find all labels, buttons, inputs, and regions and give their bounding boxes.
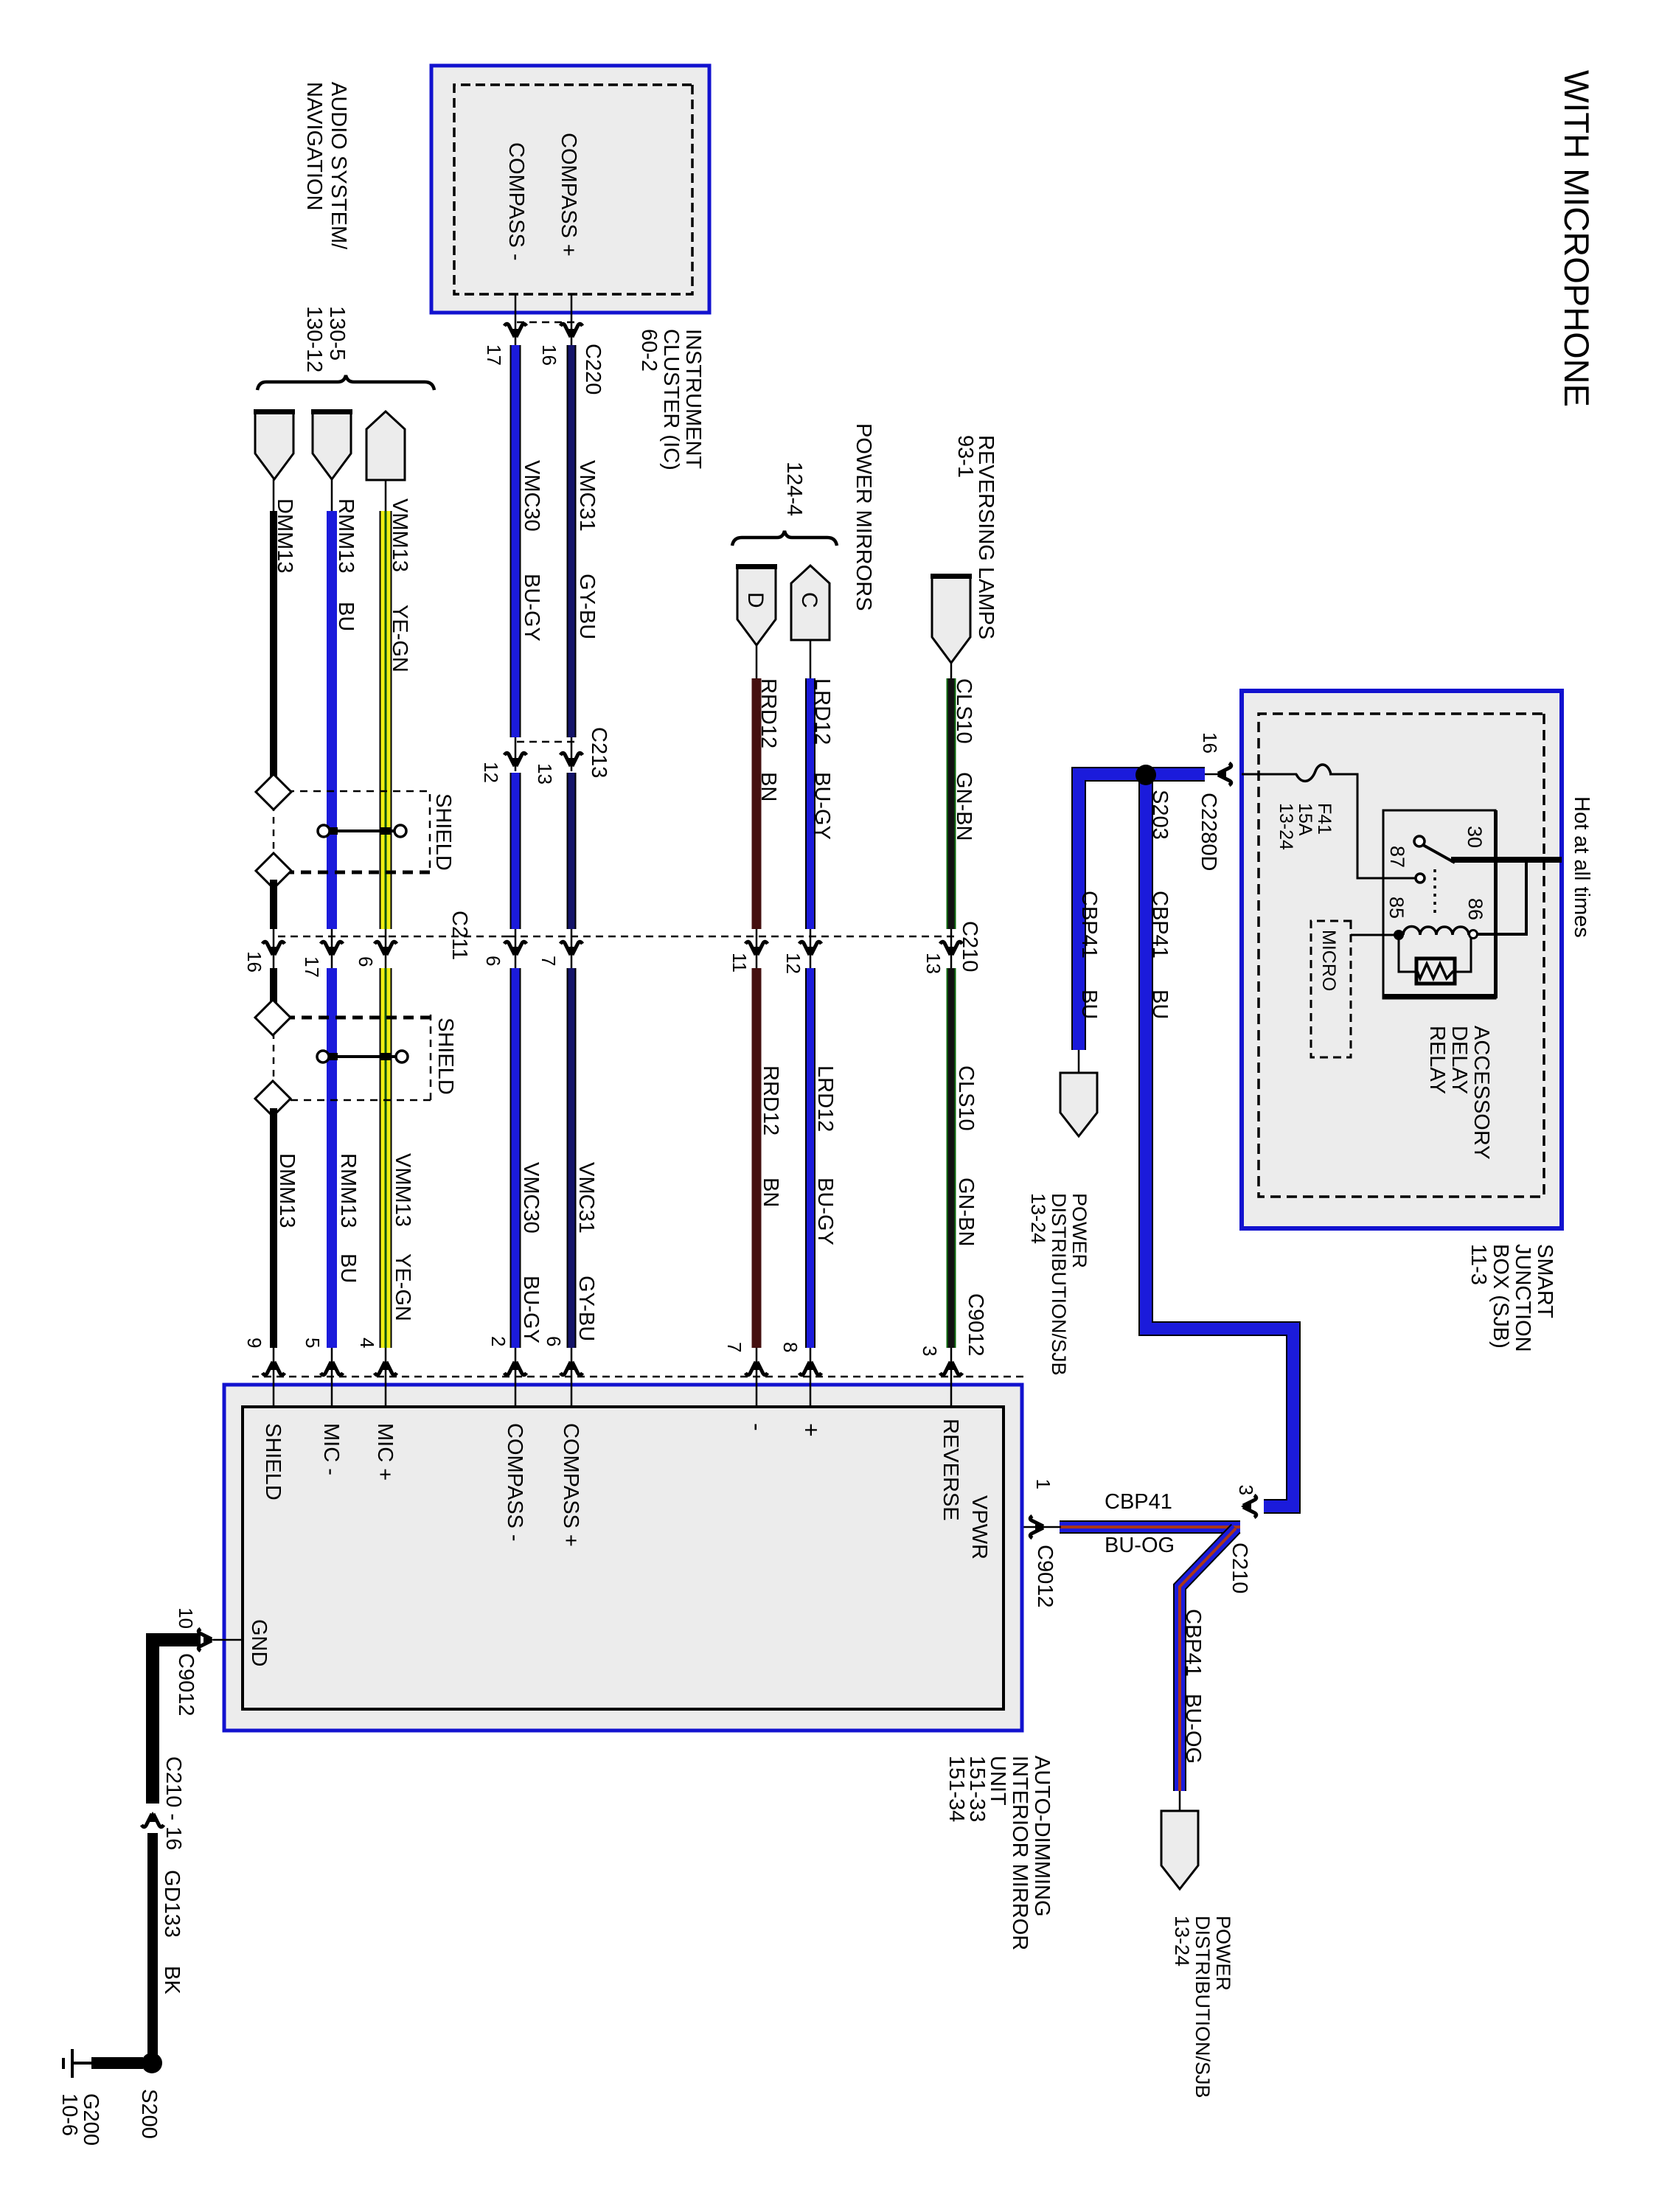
- mirror pin 4 lead: [385, 1348, 387, 1407]
- svg-text:1: 1: [1032, 1479, 1054, 1489]
- svg-text:VMC30: VMC30: [519, 1162, 543, 1234]
- svg-text:REVERSING LAMPS: REVERSING LAMPS: [974, 435, 998, 639]
- svg-text:BOX (SJB): BOX (SJB): [1489, 1244, 1512, 1349]
- svg-text:87: 87: [1386, 846, 1408, 868]
- svg-text:F41: F41: [1314, 803, 1335, 835]
- pin arrow C9012-6: [560, 1360, 582, 1375]
- wire CBP41 BU branch (S203 to C210-3): [1146, 775, 1293, 1506]
- svg-text:151-34: 151-34: [945, 1756, 968, 1822]
- svg-text:BK: BK: [160, 1966, 184, 1994]
- svg-text:BU: BU: [336, 1253, 360, 1283]
- svg-text:ACCESSORY: ACCESSORY: [1470, 1026, 1493, 1160]
- svg-text:GN-BN: GN-BN: [954, 1178, 978, 1246]
- svg-text:BN: BN: [757, 772, 780, 801]
- svg-text:DISTRIBUTION/SJB: DISTRIBUTION/SJB: [1192, 1916, 1214, 2098]
- connector flag REVERSING LAMPS: [932, 575, 970, 663]
- svg-text:D: D: [743, 592, 768, 608]
- pin arrow C210-13: [940, 942, 962, 957]
- pin arrow C211-17: [321, 942, 343, 957]
- svg-text:86: 86: [1464, 898, 1486, 920]
- mirror pin 8 lead: [810, 1348, 812, 1407]
- shield drain diamond 3: [255, 1000, 291, 1035]
- svg-text:C213: C213: [587, 727, 611, 778]
- svg-text:COMPASS +: COMPASS +: [559, 1423, 582, 1547]
- svg-text:VPWR: VPWR: [967, 1495, 991, 1559]
- svg-text:4: 4: [356, 1338, 378, 1348]
- mirror unit inner outline: [243, 1407, 1004, 1709]
- relay resistor: [1416, 959, 1455, 984]
- relay switch contact 30: [1414, 836, 1425, 846]
- svg-text:C2280D: C2280D: [1197, 793, 1220, 871]
- coil terminal 86: [1470, 931, 1478, 939]
- shield box 1 bottom dashed on DMM13: [273, 792, 275, 871]
- svg-text:17: 17: [301, 956, 323, 978]
- pin arrow C210-12: [799, 942, 821, 957]
- svg-text:BU-GY: BU-GY: [810, 772, 834, 840]
- svg-text:10: 10: [175, 1607, 197, 1629]
- connector pentagon POWER DISTRIBUTION/SJB: [1060, 1073, 1097, 1136]
- svg-text:NAVIGATION: NAVIGATION: [302, 82, 326, 211]
- svg-text:DMM13: DMM13: [275, 1153, 299, 1228]
- svg-text:16: 16: [1199, 732, 1221, 754]
- svg-text:12: 12: [782, 953, 804, 974]
- svg-text:CLS10: CLS10: [954, 1065, 978, 1131]
- svg-text:RRD12: RRD12: [759, 1065, 782, 1135]
- shield link 2: [317, 1051, 408, 1062]
- mirror pin 5 lead: [331, 1348, 333, 1407]
- connector C210/C211 dashed line: [509, 936, 954, 938]
- auto-dimming interior mirror unit box: [224, 1385, 1022, 1731]
- connector flag DMM13 (audio system): [255, 411, 293, 479]
- mirror pin 9 lead: [273, 1348, 275, 1407]
- wire RMM13 BU upper segment: [327, 511, 337, 929]
- wire DMM13 segment b: [270, 880, 277, 929]
- svg-text:CBP41: CBP41: [1077, 891, 1101, 959]
- connector flag RMM13 (audio system): [313, 411, 351, 479]
- shield box 2 bottom dashed on DMM13: [273, 1020, 275, 1096]
- svg-text:DMM13: DMM13: [273, 498, 296, 574]
- svg-text:11-3: 11-3: [1467, 1244, 1490, 1285]
- thin link C213 pin13: [571, 737, 573, 771]
- svg-text:VMC30: VMC30: [520, 460, 543, 532]
- resistor legs: [1399, 938, 1471, 972]
- svg-text:BU-GY: BU-GY: [519, 1276, 543, 1343]
- svg-text:BU: BU: [1077, 990, 1101, 1019]
- svg-text:MICRO: MICRO: [1318, 930, 1339, 991]
- pin arrow C210-6: [504, 942, 526, 957]
- pin arrow C211-6: [375, 942, 397, 957]
- shield box 2 dashed: [272, 1015, 431, 1100]
- svg-text:-: -: [744, 1423, 771, 1431]
- svg-text:2: 2: [487, 1336, 509, 1346]
- svg-text:CBP41: CBP41: [1181, 1609, 1205, 1677]
- svg-text:WITH MICROPHONE: WITH MICROPHONE: [1557, 70, 1596, 407]
- splice S203: [1135, 765, 1156, 785]
- wire DMM13 segment d: [270, 1108, 277, 1348]
- wire fuse to pin 16: [1242, 773, 1297, 776]
- wire LRD12 BU-GY upper segment: [814, 678, 815, 929]
- fuse F41: [1296, 765, 1331, 781]
- thin link C211 pin16: [273, 929, 275, 968]
- svg-text:VMM13: VMM13: [388, 498, 411, 572]
- svg-text:RMM13: RMM13: [336, 1153, 360, 1228]
- ground feed bar: [91, 2057, 143, 2069]
- svg-text:13: 13: [534, 763, 556, 785]
- svg-text:AUTO-DIMMING: AUTO-DIMMING: [1030, 1756, 1054, 1917]
- pin arrow C9012-7: [745, 1360, 768, 1375]
- wire COMPASS- lead from IC: [515, 294, 517, 345]
- GND pin lead: [213, 1639, 243, 1641]
- svg-text:BU-GY: BU-GY: [520, 574, 543, 641]
- wire RRD12 BN upper segment: [752, 678, 762, 929]
- wire VMM13 YE-GN lower segment: [391, 968, 392, 1348]
- lead to pentagon: [1179, 1791, 1181, 1813]
- SJB inner dashed outline: [1259, 714, 1544, 1197]
- wire DMM13 segment a: [270, 511, 277, 783]
- svg-text:SHIELD: SHIELD: [261, 1423, 285, 1500]
- svg-text:COMPASS -: COMPASS -: [503, 1423, 526, 1542]
- thin link C210 pin6: [515, 929, 517, 968]
- svg-text:YE-GN: YE-GN: [391, 1253, 414, 1321]
- connector C9012 dashed line: [252, 1376, 1023, 1378]
- pin arrow C220-17: [504, 324, 526, 339]
- IC inner dashed outline: [454, 85, 692, 294]
- connector pentagon POWER DISTRIBUTION/SJB right: [1161, 1811, 1198, 1889]
- wire CBP41 BU main (SJB to C210): [1079, 774, 1205, 1050]
- svg-text:151-33: 151-33: [965, 1756, 989, 1822]
- wire VMC30 BU-GY upper segment: [520, 345, 521, 737]
- svg-text:13-24: 13-24: [1276, 803, 1296, 850]
- svg-text:C220: C220: [581, 344, 605, 394]
- pin arrow C9012-10 GND: [198, 1629, 214, 1651]
- svg-text:BU: BU: [334, 602, 358, 631]
- ground symbol G200: [63, 2049, 91, 2078]
- lead VPWR: [1004, 1526, 1061, 1528]
- svg-text:GY-BU: GY-BU: [575, 574, 599, 639]
- relay dotted link: [1433, 869, 1436, 913]
- lead to power distribution pentagon: [1078, 1050, 1080, 1075]
- coil terminal 85: [1394, 930, 1404, 940]
- mirror pin 6 lead: [571, 1348, 573, 1407]
- svg-text:9: 9: [243, 1338, 265, 1348]
- svg-text:COMPASS -: COMPASS -: [504, 142, 528, 261]
- pin arrow C211-16: [262, 942, 285, 957]
- pin arrow C210-7: [560, 942, 582, 957]
- svg-text:C210: C210: [958, 921, 981, 972]
- lead to blue wire: [1202, 773, 1218, 776]
- pin arrow C2280D-16: [1216, 763, 1231, 785]
- wire CBP41 BU-OG to VPWR: [1060, 1520, 1240, 1534]
- relay contact 87: [1416, 874, 1425, 883]
- bus to coil 86 wire: [1477, 860, 1526, 934]
- svg-text:BU: BU: [1148, 990, 1172, 1019]
- svg-text:JUNCTION: JUNCTION: [1511, 1244, 1534, 1352]
- svg-text:CLS10: CLS10: [952, 678, 975, 744]
- lead C: [810, 640, 812, 680]
- wire 85 to MICRO: [1351, 934, 1395, 936]
- wire LRD12 BU-GY lower segment: [814, 968, 815, 1348]
- svg-text:17: 17: [483, 344, 505, 366]
- svg-text:3: 3: [1235, 1485, 1257, 1495]
- svg-text:C210: C210: [1228, 1543, 1251, 1593]
- thin link C210 pin7: [571, 929, 573, 968]
- pin arrow C9012-1 VPWR: [1030, 1516, 1046, 1538]
- connector C213 dashed line: [512, 741, 574, 743]
- svg-text:13: 13: [922, 953, 945, 974]
- svg-text:POWER: POWER: [1212, 1916, 1234, 1991]
- shield drain diamond 1: [256, 774, 291, 810]
- svg-text:C9012: C9012: [964, 1293, 987, 1356]
- thin link C210-11: [756, 929, 758, 968]
- svg-text:+: +: [798, 1423, 824, 1437]
- svg-text:RMM13: RMM13: [334, 498, 358, 574]
- mirror pin 2 lead: [515, 1348, 517, 1407]
- svg-text:POWER MIRRORS: POWER MIRRORS: [852, 423, 875, 611]
- svg-text:12: 12: [480, 762, 502, 783]
- svg-text:INSTRUMENT: INSTRUMENT: [681, 329, 705, 469]
- svg-text:30: 30: [1464, 826, 1486, 848]
- svg-text:BN: BN: [759, 1178, 782, 1207]
- connector house C (power mirrors): [791, 566, 829, 640]
- mirror pin 3 lead: [950, 1348, 953, 1407]
- svg-text:G200: G200: [79, 2093, 102, 2146]
- wire VMM13 YE-GN upper segment: [391, 511, 392, 929]
- wire VMC30 BU-GY mid segment: [520, 773, 521, 929]
- svg-text:5: 5: [302, 1338, 324, 1348]
- svg-text:7: 7: [723, 1342, 745, 1352]
- svg-text:BU-GY: BU-GY: [813, 1178, 837, 1245]
- svg-text:7: 7: [538, 956, 560, 966]
- svg-text:SMART: SMART: [1533, 1244, 1557, 1318]
- svg-text:VMM13: VMM13: [391, 1153, 414, 1227]
- shield drain diamond 4: [255, 1081, 291, 1116]
- svg-text:CBP41: CBP41: [1148, 891, 1172, 959]
- lead VMM13: [385, 480, 387, 512]
- wire COMPASS+ lead from IC: [571, 294, 573, 345]
- pin arrow C9012-9: [262, 1360, 285, 1375]
- lead D: [756, 645, 758, 680]
- svg-text:93-1: 93-1: [953, 435, 977, 478]
- lead DMM13: [273, 479, 275, 512]
- shield box 2 left thick dashed: [272, 1016, 431, 1020]
- shield box 1 dashed: [274, 791, 430, 872]
- lead RMM13: [331, 479, 333, 512]
- connector C220 dashed line: [512, 321, 574, 324]
- wire RMM13 BU lower segment: [327, 968, 337, 1348]
- svg-text:GND: GND: [247, 1619, 271, 1666]
- thin link C210-12: [810, 929, 812, 968]
- svg-text:C211: C211: [448, 911, 471, 960]
- svg-text:6: 6: [543, 1336, 565, 1346]
- pin arrow C213-12: [504, 753, 526, 768]
- svg-text:SHIELD: SHIELD: [431, 793, 455, 871]
- svg-text:16: 16: [538, 344, 560, 366]
- connector C211 dashed line: [274, 936, 386, 938]
- pin arrow C210-3: [1241, 1495, 1256, 1517]
- shield drain diamond 2: [256, 853, 291, 888]
- svg-text:16: 16: [243, 951, 265, 973]
- svg-text:15A: 15A: [1295, 803, 1315, 836]
- relay coil: [1403, 927, 1469, 935]
- svg-text:C210 - 16: C210 - 16: [161, 1756, 185, 1850]
- svg-text:DELAY: DELAY: [1447, 1026, 1471, 1094]
- svg-text:MIC -: MIC -: [319, 1423, 343, 1475]
- svg-text:3: 3: [919, 1346, 941, 1356]
- svg-text:Hot at all times: Hot at all times: [1570, 796, 1593, 938]
- svg-text:LRD12: LRD12: [810, 678, 834, 745]
- wire VMC31 GY-BU mid segment: [575, 773, 577, 929]
- instrument cluster (IC) box: [431, 66, 709, 313]
- svg-text:13-24: 13-24: [1027, 1193, 1049, 1244]
- wire CBP41 BU-OG branch to SJB: [1180, 1528, 1236, 1791]
- svg-text:BU-OG: BU-OG: [1105, 1534, 1175, 1557]
- wire GND BK (mirror to C210-16): [153, 1640, 201, 1804]
- thin link C213 pin12: [515, 737, 517, 771]
- svg-text:COMPASS +: COMPASS +: [557, 133, 580, 257]
- svg-text:GN-BN: GN-BN: [952, 772, 975, 841]
- svg-text:CBP41: CBP41: [1105, 1490, 1172, 1514]
- wire VMC30 BU-GY lower segment: [520, 968, 521, 1348]
- pin arrow C210-11: [745, 942, 768, 957]
- thin link C211 pin6: [385, 929, 387, 968]
- svg-text:85: 85: [1385, 897, 1408, 919]
- pin arrow C220-16: [560, 324, 582, 339]
- svg-text:INTERIOR MIRROR: INTERIOR MIRROR: [1008, 1756, 1032, 1950]
- svg-text:AUDIO SYSTEM/: AUDIO SYSTEM/: [327, 82, 350, 250]
- svg-text:REVERSE: REVERSE: [939, 1419, 962, 1521]
- svg-text:UNIT: UNIT: [986, 1756, 1009, 1806]
- svg-text:C9012: C9012: [1033, 1545, 1057, 1607]
- shield link 1: [318, 825, 406, 837]
- wire VMC31 GY-BU lower segment: [575, 968, 577, 1348]
- accessory delay relay box: [1383, 810, 1495, 998]
- svg-text:C9012: C9012: [174, 1653, 198, 1716]
- thin link C211 pin17: [331, 929, 333, 968]
- pin arrow C210-16 GND run: [142, 1812, 164, 1827]
- svg-text:RELAY: RELAY: [1425, 1026, 1449, 1094]
- connector house VMM13 (audio system): [366, 411, 405, 480]
- svg-text:13-24: 13-24: [1171, 1916, 1193, 1966]
- svg-text:BU-OG: BU-OG: [1181, 1694, 1205, 1764]
- svg-text:6: 6: [355, 956, 377, 967]
- svg-text:124-4: 124-4: [782, 462, 806, 516]
- svg-text:YE-GN: YE-GN: [388, 605, 411, 672]
- relay switch arm: [1423, 845, 1455, 863]
- svg-text:RRD12: RRD12: [757, 678, 780, 748]
- wire DMM13 segment c: [270, 968, 277, 1008]
- pin arrow C9012-4: [375, 1360, 397, 1375]
- svg-text:11: 11: [728, 953, 751, 973]
- svg-text:130-5: 130-5: [325, 306, 349, 361]
- svg-text:S200: S200: [137, 2089, 161, 2139]
- svg-text:6: 6: [482, 956, 504, 966]
- svg-text:10-6: 10-6: [58, 2093, 81, 2136]
- shield box 1 right thick dashed: [274, 871, 430, 874]
- wire RRD12 BN lower segment: [752, 968, 762, 1348]
- svg-text:VMC31: VMC31: [575, 460, 599, 532]
- pin arrow C213-13: [560, 753, 582, 768]
- svg-text:130-12: 130-12: [302, 306, 326, 372]
- mirror pin 7 lead: [756, 1348, 758, 1407]
- svg-text:LRD12: LRD12: [813, 1065, 837, 1132]
- pin arrow C9012-3: [940, 1360, 962, 1375]
- svg-text:DISTRIBUTION/SJB: DISTRIBUTION/SJB: [1048, 1193, 1070, 1376]
- svg-text:GD133: GD133: [160, 1870, 184, 1938]
- lead REVERSING: [950, 663, 953, 680]
- svg-text:POWER: POWER: [1068, 1193, 1091, 1268]
- svg-text:MIC +: MIC +: [373, 1423, 397, 1481]
- pin arrow C9012-5: [321, 1360, 343, 1375]
- svg-text:60-2: 60-2: [637, 329, 661, 372]
- hot at all times bus bar: [1451, 857, 1562, 863]
- wire CLS10 GN-BN upper segment: [955, 678, 956, 929]
- svg-text:SHIELD: SHIELD: [434, 1018, 457, 1095]
- svg-text:VMC31: VMC31: [574, 1162, 598, 1234]
- wire CLS10 GN-BN lower segment: [955, 968, 956, 1348]
- wire VMC31 GY-BU upper segment: [575, 345, 577, 737]
- wire 87 to fuse: [1329, 774, 1415, 878]
- svg-text:GY-BU: GY-BU: [574, 1276, 598, 1341]
- bracket 124-4: [732, 531, 837, 546]
- svg-text:C: C: [797, 592, 821, 608]
- connector flag D (power mirrors): [737, 566, 776, 645]
- smart junction box (SJB): [1242, 691, 1562, 1228]
- wire GD133 BK: [147, 1833, 158, 2059]
- pin arrow C9012-8: [799, 1360, 821, 1375]
- svg-text:S203: S203: [1148, 790, 1172, 840]
- svg-text:8: 8: [779, 1342, 801, 1352]
- splice S200: [142, 2053, 162, 2073]
- svg-text:CLUSTER (IC): CLUSTER (IC): [659, 329, 683, 470]
- thin link C210-13: [950, 929, 953, 968]
- pin arrow C9012-2: [504, 1360, 526, 1375]
- MICRO dashed box: [1311, 921, 1351, 1057]
- bracket 130-5 130-12: [257, 375, 434, 390]
